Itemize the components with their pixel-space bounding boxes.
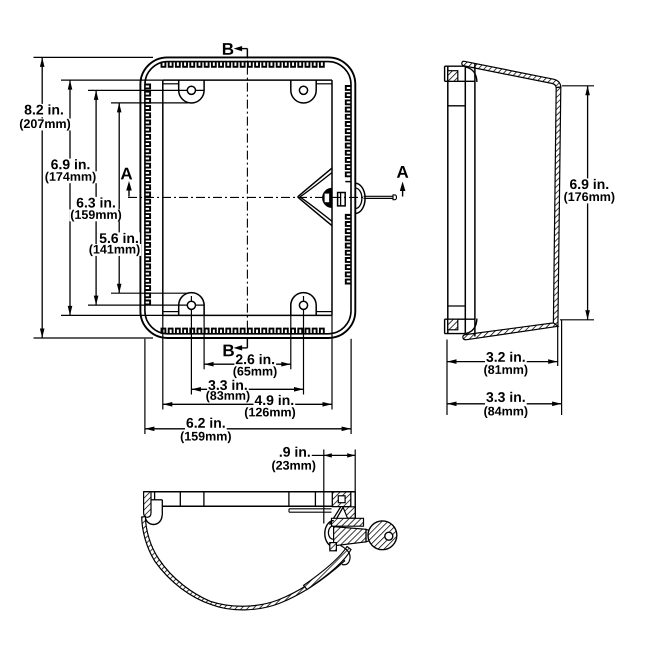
dimension line 3.2 in [447,361,558,363]
vertical centerline (section B-B) [246,49,248,348]
label 5.6 in [98,232,140,245]
bottom view: key head (hatched circle) [368,521,397,550]
label A left [121,168,132,180]
front view: bottom edge teeth [162,329,324,334]
extension lines 5.6 in [111,102,188,104]
label (81mm) [483,364,529,376]
extension lines 6.3 in [88,89,204,91]
dimension line 3.3 in (84mm) [447,403,562,405]
side view: mounting bracket verticals [447,66,449,333]
label (159mm) left [69,209,122,221]
extension lines 6.2 in [144,339,146,434]
section marker A (left) [128,184,130,197]
label (23mm) [271,460,318,472]
front view: back plate outline [163,79,332,81]
front view: bottom-right mounting ear [291,293,316,316]
label B bottom [224,345,234,357]
bottom view: key hole [385,532,393,540]
side view: dome shoulder arcs [466,67,477,82]
bottom view: latch block on bar (hatched) [332,492,351,507]
front view: right edge teeth [346,86,351,284]
dimension line 6.2 in [145,428,351,430]
label 3.3 in side [485,391,527,404]
front view: outer rim of cover base [140,57,355,338]
bottom view: base flange bar [144,491,356,493]
bottom view: latch lever arms [330,507,341,525]
bottom view: key neck [366,529,371,542]
side view: bracket top details [445,65,466,67]
label 2.6 in [234,354,276,367]
label (83mm) [205,390,252,402]
label B top [223,43,233,55]
label .9 in [278,446,312,459]
section marker B (bottom) [237,347,248,349]
extension lines 6.9 in (174mm) [61,79,163,81]
extension lines 3.2 in / 3.3 in [446,340,448,416]
label (207mm) [18,119,71,131]
label 6.3 in [75,197,117,210]
bottom view: key shaft (hatched) [334,527,366,546]
dimension line .9 in [310,454,324,456]
bottom view: bar left step [151,499,162,501]
bottom view: under-bar rails [289,508,332,510]
dimension line 6.3 in [95,90,97,305]
bottom view: latch hook band [304,547,351,590]
front view: inner rim line [145,62,351,334]
label 8.2 in [23,104,65,117]
bottom view: bar left lip (hatched) [144,492,151,518]
extension lines 8.2 in [34,56,154,58]
label 3.3 in bottom [207,379,249,392]
front view: top-left mounting ear [179,80,204,103]
label 6.9 in [50,159,92,172]
dimension line 4.9 in [163,403,332,405]
label (65mm) [232,366,278,378]
section marker B (top) [237,48,248,50]
front view: top-right mounting ear [291,80,316,103]
side view: bottom wall (hatched) [463,323,558,340]
latch pin [364,195,393,197]
latch pawl (dark half-disc) [323,188,332,207]
bottom view: bar dividers [179,492,181,506]
bottom view: dome shoulder arc (left) [145,516,162,525]
latch leaf springs (front view) [298,168,332,197]
dimension line 3.3 in [191,388,303,390]
rim window around latch [345,181,351,183]
label 3.2 in [485,351,527,364]
label (174mm) [44,171,97,183]
latch housing bump outside rim [355,183,365,213]
dimension line 8.2 in [41,57,43,338]
bottom view: latch tabs [330,543,337,551]
label (84mm) [483,406,529,418]
ear holes (white filled, clip extension lines) [187,86,195,94]
extension lines .9 in [323,450,325,524]
extension lines 2.6 in [203,303,205,369]
label 6.9 in side [569,178,611,191]
label (126mm) [243,407,296,419]
dimension line 5.6 in [118,103,120,293]
bottom view: hook tip loop [341,546,351,565]
front view: bottom-left mounting ear [179,293,204,316]
label 6.2 in [185,417,227,430]
side view: top wall (hatched) [462,61,561,87]
extension lines 4.9 in [162,315,164,409]
front view: plate corner step lines [163,83,179,85]
latch slot block [338,193,346,206]
side view: bracket bottom details [445,318,475,320]
label A right [397,166,408,178]
dimension line 6.9 in (176mm) [587,86,589,320]
bottom view: latch bracket wedge (hatched) [343,507,356,518]
bottom ear holes (white filled) [187,301,195,309]
extension lines 3.3 in (through bottom ear holes) [190,296,192,395]
horizontal centerline (section A-A) [128,196,363,198]
label (159mm) bottom [179,431,232,443]
bottom view: dome bubble wall (hatched band) [142,517,345,610]
front view: left edge teeth [145,85,150,305]
section marker A (right) [402,185,404,197]
front view: top edge teeth [162,62,324,67]
label (176mm) [563,192,616,204]
bottom view: bar right end [354,492,356,507]
label (141mm) [88,244,141,256]
label 4.9 in [254,394,296,407]
dimension line 2.6 in [204,363,291,365]
bottom view: latch pivot cap [325,521,334,547]
bottom view: latch cross bar (hatched) [332,518,364,526]
dimension line 6.9 in (174mm) [69,80,71,315]
side view: right wall (hatched) [553,87,560,326]
extension lines 6.9 in (176mm) [562,85,594,87]
